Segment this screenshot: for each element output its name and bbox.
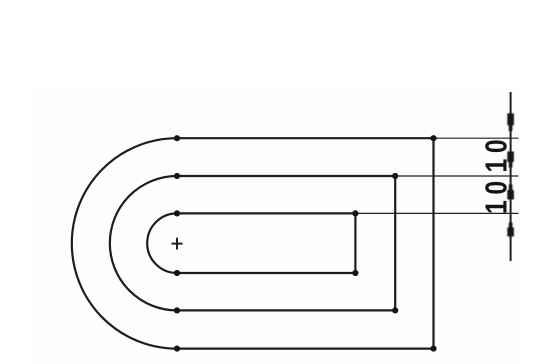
arrowhead dim2 upper xyxy=(507,152,514,168)
vertex dot inner top-right xyxy=(352,210,358,216)
extension line middle xyxy=(395,175,518,177)
dimension leader line xyxy=(510,92,512,261)
middle slot profile xyxy=(110,176,395,310)
vertex dot inner bottom-left xyxy=(174,270,180,276)
arc center cross xyxy=(172,238,183,250)
vertex dot outer bottom-right xyxy=(430,346,436,352)
vertex dot outer bottom-left xyxy=(174,346,180,352)
drawing area tint xyxy=(35,90,522,364)
outer slot profile xyxy=(72,138,434,348)
vertex dot middle top-left xyxy=(174,173,180,179)
arrowhead dim1 lower xyxy=(507,185,514,200)
inner slot profile xyxy=(147,213,355,273)
vertex dot middle bottom-right xyxy=(392,307,398,313)
vertex dot middle bottom-left xyxy=(174,307,180,313)
extension line inner xyxy=(355,212,518,214)
vertex dot outer top-left xyxy=(174,135,180,141)
vertex dot inner top-left xyxy=(174,210,180,216)
extension line top (outer) xyxy=(434,137,519,139)
svg-text:10: 10 xyxy=(479,175,513,214)
arrowhead dim2 lower xyxy=(507,223,514,237)
vertex dot inner bottom-right xyxy=(352,270,358,276)
vertex dot middle top-right xyxy=(392,173,398,179)
arrowhead dim1 upper xyxy=(507,113,514,131)
vertex dot outer top-right xyxy=(430,135,436,141)
svg-text:10: 10 xyxy=(479,134,513,173)
